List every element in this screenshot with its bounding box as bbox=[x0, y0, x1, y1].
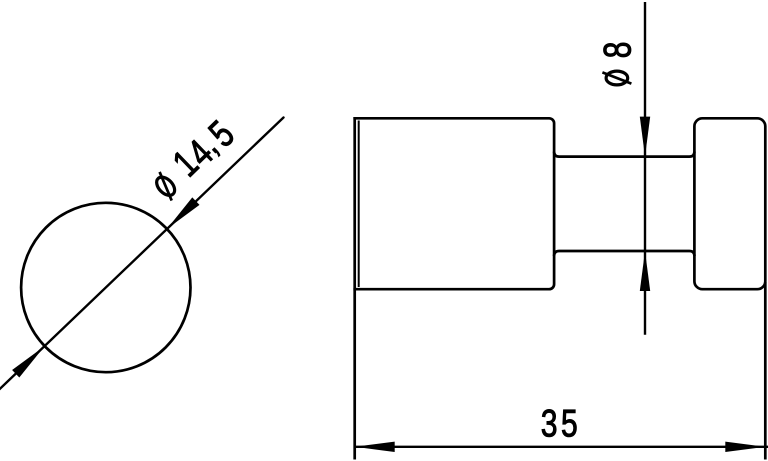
digit 4 of 14,5 bbox=[185, 138, 214, 168]
arrow at lower circle crossing bbox=[12, 346, 45, 377]
front view circle (knob face) bbox=[21, 203, 190, 372]
label diameter symbol for 14,5 bbox=[151, 171, 181, 201]
diameter 8 up arrow bbox=[640, 251, 650, 291]
diameter 8 down arrow bbox=[640, 117, 650, 157]
diameter dimension line (diagonal) bbox=[0, 118, 284, 392]
side view: neck bottom line with fillets bbox=[554, 251, 694, 256]
right extension line (from cap down) bbox=[764, 282, 767, 460]
side view: cap (rounded rectangle) bbox=[694, 118, 765, 289]
35 right arrow bbox=[725, 442, 765, 452]
digit 1 of 14,5 bbox=[172, 149, 200, 177]
diameter 8 vertical dimension line bbox=[644, 2, 646, 335]
comma of 14,5 bbox=[212, 148, 220, 157]
label diameter symbol for 8 bbox=[602, 71, 631, 85]
arrow at upper circle crossing bbox=[167, 197, 200, 229]
side view: body left inner edge line bbox=[358, 121, 360, 288]
digit 5 of 35 bbox=[562, 410, 576, 437]
digit 5 of 14,5 bbox=[207, 119, 236, 148]
35 left arrow bbox=[355, 442, 395, 452]
side view: neck top line with fillets bbox=[554, 152, 694, 157]
digit 3 of 35 bbox=[542, 410, 556, 437]
digit 8 of diameter 8 bbox=[604, 43, 631, 57]
left extension line (from body face down) bbox=[353, 117, 356, 460]
35 dimension line bbox=[354, 446, 768, 448]
side view: body outline bbox=[353, 118, 554, 289]
